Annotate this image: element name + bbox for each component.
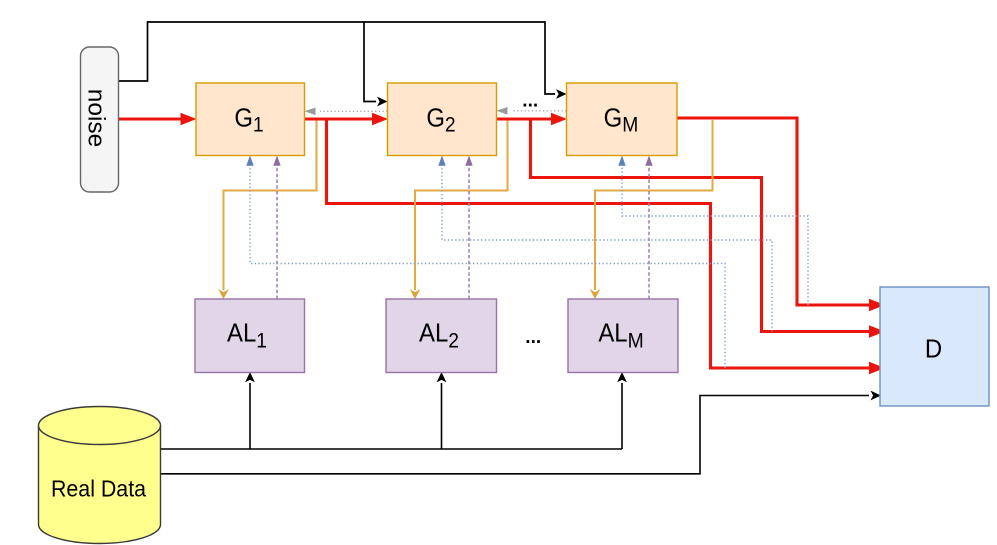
wire noise skip-connection (black) trunk [119,22,556,94]
arrowhead orange into AL1 top [218,289,229,299]
svg-text:noise: noise [83,89,110,148]
wire G2 to AL2 (orange) [415,120,508,290]
arrowhead gray into G2 right [497,107,508,115]
arrowhead blue into G2 bottom [438,156,445,166]
wire noise to G1 (red) [119,117,183,120]
arrowhead purple into G2 bottom [465,156,472,166]
wire branch real data to ALM (black) [621,383,623,449]
discriminator D box [880,287,989,406]
arrowhead red into D (first) [869,299,885,311]
wire AL1 feedback to G1 (purple dashed) [276,166,278,299]
adaptation layer AL1 box [195,299,305,373]
wire branch real data to AL1 (black) [249,383,251,449]
arrowhead orange into ALM top [590,289,601,299]
arrowhead black into G2 left [377,97,388,107]
arrowhead blue into G1 bottom [246,156,253,166]
arrowhead purple into GM bottom [645,156,652,166]
wire real data to D (black, lower) [161,396,870,474]
arrowhead black into ALM bottom [617,372,627,382]
arrowhead black into D left [871,391,882,401]
svg-text:...: ... [522,91,538,112]
wire D feedback to GM (blue dotted) [622,166,808,305]
adaptation layer AL2 box [386,299,497,373]
wire AL2 feedback to G2 (purple dashed) [468,166,470,299]
wire GM feedback to G2 (gray dotted) [512,110,567,112]
wire real data bus (black, upper) [161,448,623,450]
noise box [81,47,119,192]
wire GM output to D (red) [677,118,870,305]
arrowhead red into G2 left [372,113,388,125]
wire G1 to G2 (red) [305,117,374,120]
wire G1 to AL1 (orange) [224,120,317,290]
wire GM to ALM (orange) [595,120,713,290]
wire D feedback to G2 (blue dotted) [442,166,772,332]
wire branch real data to AL2 (black) [441,383,443,449]
adaptation layer ALM box [568,299,678,373]
generator GM box [567,83,678,156]
wire ALM feedback to GM (purple dashed) [648,166,650,299]
arrowhead gray into G1 right [305,108,316,116]
arrowhead red into D (third) [869,362,885,374]
svg-text:...: ... [525,327,541,348]
svg-text:D: D [925,335,942,364]
arrowhead blue into GM bottom [618,156,625,166]
arrowhead purple into G1 bottom [273,156,280,166]
arrowhead orange into AL2 top [410,289,421,299]
arrowhead red into D (second) [869,325,885,337]
real data cylinder [39,407,161,544]
wire G2 to GM (red) [497,117,553,120]
wire noise skip branch to G2 (black) [364,22,376,102]
wire G1 output down to D (red) [327,120,871,368]
generator G1 box [196,83,305,156]
arrowhead red into G1 left [181,113,197,125]
wire G2 output down to D (red) [531,120,871,332]
generator G2 box [388,83,497,156]
svg-text:Real Data: Real Data [51,476,147,502]
wire G2 feedback to G1 (gray dotted) [320,110,388,112]
arrowhead black into GM top-left [556,89,567,99]
arrowhead black into AL1 bottom [245,372,255,382]
arrowhead black into AL2 bottom [437,372,447,382]
wire D feedback to G1 (blue dotted) [250,166,725,368]
arrowhead red into GM left [551,113,567,125]
